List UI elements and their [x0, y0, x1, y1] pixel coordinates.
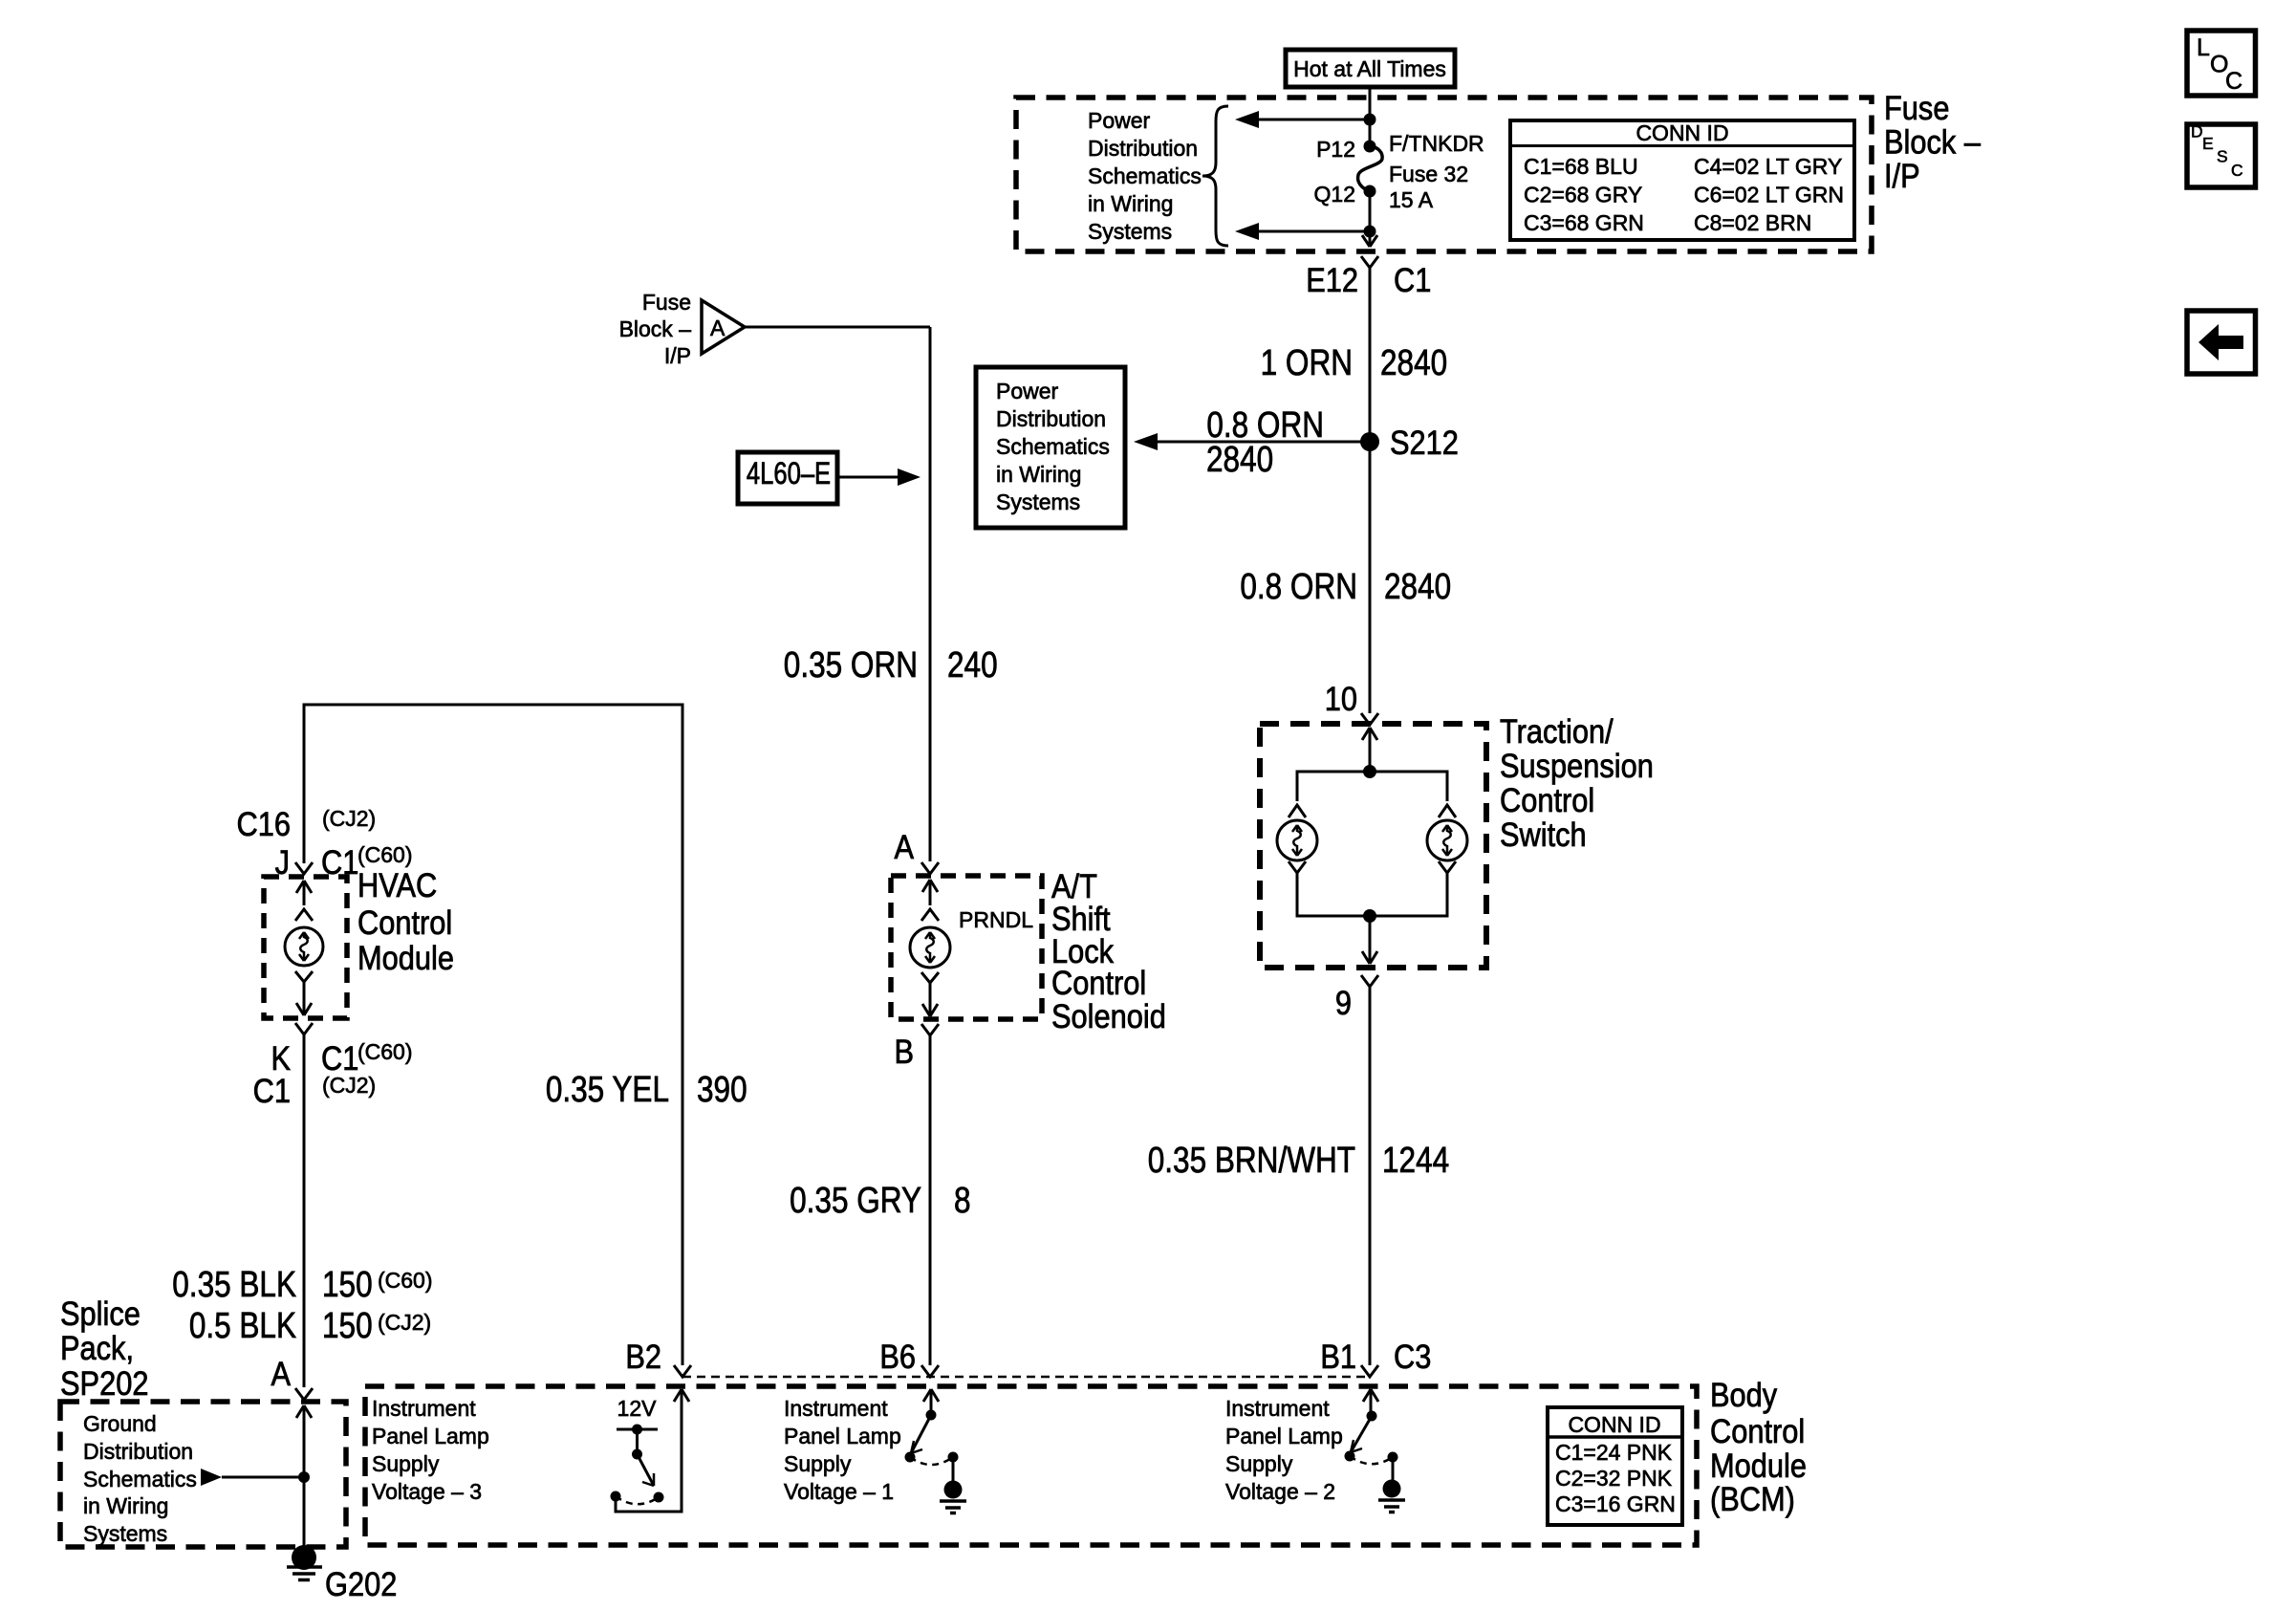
- svg-text:A: A: [894, 828, 914, 865]
- svg-text:I/P: I/P: [1884, 157, 1920, 194]
- svg-text:HVAC: HVAC: [357, 866, 437, 903]
- svg-text:Distribution: Distribution: [996, 406, 1106, 431]
- svg-text:C1=24 PNK: C1=24 PNK: [1555, 1440, 1673, 1465]
- svg-text:in Wiring: in Wiring: [83, 1493, 168, 1518]
- svg-text:P12: P12: [1316, 137, 1355, 162]
- svg-text:C: C: [2231, 161, 2243, 180]
- svg-text:(BCM): (BCM): [1710, 1480, 1795, 1517]
- svg-text:Ground: Ground: [83, 1411, 157, 1436]
- svg-text:I/P: I/P: [664, 343, 691, 368]
- svg-text:0.35 BLK: 0.35 BLK: [172, 1264, 296, 1304]
- svg-text:C16: C16: [237, 805, 291, 842]
- svg-text:C3=68 GRN: C3=68 GRN: [1524, 210, 1644, 235]
- svg-text:(C60): (C60): [378, 1268, 433, 1293]
- svg-text:Solenoid: Solenoid: [1051, 997, 1166, 1034]
- svg-text:2840: 2840: [1206, 439, 1273, 479]
- svg-text:0.5 BLK: 0.5 BLK: [189, 1305, 296, 1345]
- svg-text:Pack,: Pack,: [60, 1329, 134, 1366]
- svg-text:S212: S212: [1390, 424, 1459, 461]
- svg-text:0.35 YEL: 0.35 YEL: [546, 1069, 669, 1109]
- svg-text:C3=16 GRN: C3=16 GRN: [1555, 1491, 1676, 1516]
- svg-text:C1: C1: [253, 1072, 291, 1109]
- svg-text:(CJ2): (CJ2): [322, 806, 376, 831]
- svg-text:B1: B1: [1320, 1338, 1356, 1375]
- svg-text:Traction/: Traction/: [1500, 712, 1614, 750]
- svg-text:C1: C1: [1394, 261, 1431, 298]
- svg-text:Power: Power: [996, 379, 1059, 403]
- svg-text:C6=02 LT GRN: C6=02 LT GRN: [1694, 183, 1844, 207]
- svg-text:Voltage – 3: Voltage – 3: [372, 1479, 482, 1504]
- svg-text:Supply: Supply: [1225, 1451, 1293, 1476]
- svg-text:(CJ2): (CJ2): [378, 1310, 431, 1335]
- svg-text:Module: Module: [1710, 1447, 1807, 1484]
- svg-text:A: A: [710, 316, 726, 340]
- svg-text:Panel Lamp: Panel Lamp: [1225, 1424, 1343, 1448]
- svg-text:(C60): (C60): [357, 842, 413, 867]
- svg-text:(C60): (C60): [357, 1039, 413, 1064]
- svg-text:A: A: [271, 1355, 291, 1392]
- svg-text:C3: C3: [1394, 1338, 1431, 1375]
- svg-text:Fuse: Fuse: [642, 290, 691, 315]
- svg-text:Schematics: Schematics: [1088, 163, 1202, 188]
- svg-text:Body: Body: [1710, 1376, 1778, 1413]
- svg-text:150: 150: [322, 1264, 373, 1304]
- svg-text:B: B: [894, 1033, 914, 1070]
- svg-text:Supply: Supply: [784, 1451, 852, 1476]
- svg-text:Distribution: Distribution: [1088, 136, 1198, 161]
- svg-text:Instrument: Instrument: [372, 1396, 476, 1421]
- svg-text:L: L: [2197, 34, 2210, 61]
- svg-text:Systems: Systems: [83, 1521, 167, 1546]
- svg-text:0.35 GRY: 0.35 GRY: [790, 1180, 921, 1220]
- svg-text:PRNDL: PRNDL: [959, 907, 1033, 932]
- svg-text:(CJ2): (CJ2): [322, 1073, 376, 1098]
- svg-text:E12: E12: [1306, 261, 1358, 298]
- svg-text:Systems: Systems: [1088, 219, 1172, 244]
- svg-text:1244: 1244: [1382, 1140, 1449, 1180]
- svg-text:390: 390: [697, 1069, 747, 1109]
- svg-text:4L60–E: 4L60–E: [747, 457, 831, 490]
- svg-text:0.35 ORN: 0.35 ORN: [784, 644, 918, 685]
- svg-text:2840: 2840: [1380, 342, 1447, 382]
- svg-text:B6: B6: [879, 1338, 916, 1375]
- svg-text:0.8 ORN: 0.8 ORN: [1240, 566, 1357, 606]
- svg-text:Control: Control: [357, 903, 452, 941]
- svg-text:C2=32 PNK: C2=32 PNK: [1555, 1466, 1673, 1491]
- svg-text:Panel Lamp: Panel Lamp: [784, 1424, 901, 1448]
- svg-text:Instrument: Instrument: [1225, 1396, 1330, 1421]
- svg-text:0.35 BRN/WHT: 0.35 BRN/WHT: [1148, 1140, 1355, 1180]
- svg-text:240: 240: [947, 644, 998, 685]
- svg-text:Switch: Switch: [1500, 816, 1587, 853]
- svg-text:1 ORN: 1 ORN: [1261, 342, 1353, 382]
- svg-text:Power: Power: [1088, 108, 1151, 133]
- svg-text:15 A: 15 A: [1389, 187, 1434, 212]
- svg-text:Control: Control: [1710, 1412, 1805, 1449]
- svg-text:Systems: Systems: [996, 490, 1080, 514]
- svg-text:8: 8: [954, 1180, 971, 1220]
- svg-text:12V: 12V: [617, 1396, 658, 1421]
- svg-text:Distribution: Distribution: [83, 1439, 193, 1464]
- svg-text:E: E: [2202, 134, 2214, 153]
- svg-text:Control: Control: [1051, 964, 1146, 1001]
- svg-text:in Wiring: in Wiring: [1088, 191, 1173, 216]
- svg-text:C2=68 GRY: C2=68 GRY: [1524, 183, 1642, 207]
- svg-text:Block –: Block –: [1884, 123, 1982, 161]
- svg-text:Fuse: Fuse: [1884, 89, 1949, 126]
- svg-text:Suspension: Suspension: [1500, 747, 1654, 784]
- svg-text:C: C: [2225, 68, 2242, 95]
- svg-text:Control: Control: [1500, 781, 1594, 818]
- svg-text:150: 150: [322, 1305, 373, 1345]
- svg-text:9: 9: [1335, 984, 1352, 1021]
- svg-text:Hot at All Times: Hot at All Times: [1293, 56, 1446, 81]
- svg-text:C1=68 BLU: C1=68 BLU: [1524, 154, 1638, 179]
- svg-text:Q12: Q12: [1314, 182, 1355, 207]
- svg-text:Block –: Block –: [619, 316, 692, 341]
- svg-text:Instrument: Instrument: [784, 1396, 888, 1421]
- svg-text:Schematics: Schematics: [996, 434, 1110, 459]
- svg-text:SP202: SP202: [60, 1364, 148, 1402]
- svg-text:C4=02 LT GRY: C4=02 LT GRY: [1694, 154, 1842, 179]
- svg-text:Supply: Supply: [372, 1451, 440, 1476]
- svg-text:Voltage – 2: Voltage – 2: [1225, 1479, 1335, 1504]
- svg-text:Module: Module: [357, 939, 454, 976]
- svg-text:Splice: Splice: [60, 1295, 141, 1332]
- svg-text:Schematics: Schematics: [83, 1467, 197, 1491]
- svg-text:F/TNKDR: F/TNKDR: [1389, 131, 1484, 156]
- svg-text:S: S: [2217, 147, 2228, 166]
- svg-text:Fuse 32: Fuse 32: [1389, 162, 1468, 186]
- svg-text:2840: 2840: [1384, 566, 1451, 606]
- svg-text:C1: C1: [321, 1039, 358, 1077]
- svg-text:C8=02 BRN: C8=02 BRN: [1694, 210, 1811, 235]
- svg-text:CONN ID: CONN ID: [1635, 120, 1728, 145]
- svg-text:D: D: [2191, 122, 2203, 142]
- svg-text:10: 10: [1325, 680, 1357, 717]
- svg-text:G202: G202: [325, 1565, 397, 1602]
- svg-text:Panel Lamp: Panel Lamp: [372, 1424, 489, 1448]
- svg-text:Voltage – 1: Voltage – 1: [784, 1479, 894, 1504]
- svg-text:CONN ID: CONN ID: [1568, 1412, 1660, 1437]
- svg-text:in Wiring: in Wiring: [996, 462, 1081, 487]
- svg-text:B2: B2: [625, 1338, 661, 1375]
